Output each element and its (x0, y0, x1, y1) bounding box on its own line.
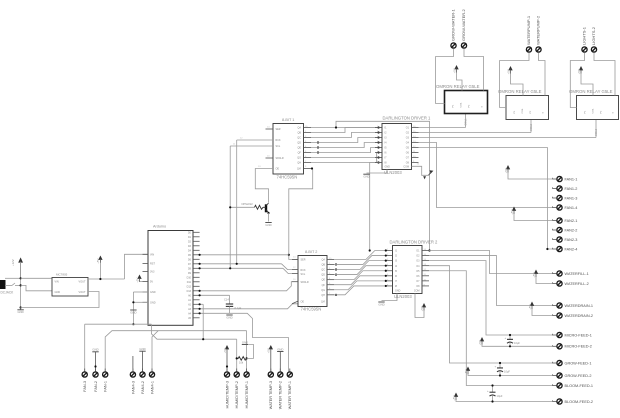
svg-text:QA: QA (298, 127, 302, 130)
svg-text:8-BIT 2: 8-BIT 2 (305, 250, 317, 254)
svg-text:GND: GND (385, 165, 391, 168)
U3 left pin stubs (292, 257, 298, 304)
wire LIGHTS-2 to K3 pin (594, 56, 615, 96)
+5V symbol FAN1 (504, 165, 553, 179)
ground (92, 348, 98, 372)
ground (139, 347, 145, 372)
svg-text:OE: OE (301, 300, 305, 303)
wire +5V to K1 COM (457, 73, 463, 91)
svg-text:LIGHTS-2: LIGHTS-2 (591, 26, 596, 45)
svg-text:GND: GND (150, 291, 156, 294)
wire O2 to WATERDRAIN-1 (429, 256, 553, 306)
junction dot (202, 338, 204, 340)
IC U3 74HC595N shift register 2 (298, 250, 327, 312)
ground (363, 174, 369, 178)
svg-text:+5V: +5V (577, 69, 581, 74)
wire H2 sensor bus (151, 324, 236, 339)
svg-text:C14: C14 (224, 298, 229, 302)
wire ground rail to bottom (85, 323, 152, 325)
junction dot (377, 141, 379, 143)
junction dot (335, 263, 337, 265)
svg-text:BLOOM-FEED-1: BLOOM-FEED-1 (565, 384, 593, 388)
svg-text:VOUT: VOUT (79, 291, 86, 294)
svg-text:COM: COM (403, 165, 409, 168)
resistor R1 10k (237, 357, 247, 365)
wire H2 to HUMID-2 (236, 339, 238, 371)
connector FAN2-2 (553, 227, 578, 232)
svg-text:WATERPUMP-1: WATERPUMP-1 (526, 15, 531, 45)
wire LIGHTS-1 to K3 pin (570, 56, 584, 108)
+5V symbol WATERDRAIN (528, 302, 553, 316)
svg-text:BLOOM-FEED-2: BLOOM-FEED-2 (565, 400, 593, 404)
wire rail drop FAN-3 (84, 324, 86, 371)
connector FAN4-1 (149, 369, 154, 394)
svg-text:74HC595N: 74HC595N (301, 307, 322, 312)
svg-text:10µF: 10µF (514, 341, 520, 345)
junction dot (20, 277, 22, 279)
junction dot (369, 249, 371, 251)
svg-text:FAN4-2: FAN4-2 (141, 381, 145, 394)
connector BLOOM-FEED-2 (553, 399, 593, 404)
svg-text:+5V: +5V (96, 259, 100, 264)
svg-text:VOUT: VOUT (79, 281, 86, 284)
svg-text:OMRON RELAY G5LE: OMRON RELAY G5LE (498, 89, 542, 94)
svg-text:GND: GND (130, 310, 136, 314)
junction dot (335, 126, 337, 128)
connector LIGHTS-1 (582, 26, 587, 56)
+5V symbol WATERFILL (532, 270, 553, 284)
IC U1 74HC595N shift register 1 (273, 118, 304, 180)
svg-text:VIN: VIN (55, 281, 59, 284)
svg-text:QG: QG (297, 157, 301, 160)
svg-text:COIL2: COIL2 (530, 123, 533, 131)
svg-text:WATER TEMP-2: WATER TEMP-2 (279, 381, 283, 409)
svg-text:RCK: RCK (276, 139, 281, 142)
wire MCU A? to H2 (200, 304, 204, 339)
+5V symbol (96, 256, 102, 264)
MCU right pins (187, 231, 200, 320)
+5V arrow at U2 COM (423, 170, 433, 179)
svg-text:FAN1-3: FAN1-3 (565, 196, 578, 200)
svg-text:RST: RST (150, 263, 155, 266)
svg-text:GROW-FEED-2: GROW-FEED-2 (565, 374, 592, 378)
svg-text:WATER TEMP-1: WATER TEMP-1 (288, 381, 292, 409)
svg-text:GND: GND (378, 302, 384, 306)
ground (277, 347, 283, 371)
relay K3 OMRON G5LE (569, 89, 619, 120)
connector HUMID/TEMP-2 (234, 369, 239, 409)
connector WATER TEMP-1 (287, 369, 292, 410)
svg-text:SRCLR: SRCLR (276, 157, 284, 160)
connector WATERPUMP-2 (536, 15, 541, 56)
junction dot (20, 284, 22, 286)
junction dot (267, 212, 269, 214)
ground (130, 310, 136, 314)
connector WATERFILL-1 (553, 271, 589, 276)
svg-text:SRCLR: SRCLR (301, 281, 309, 284)
+5V symbol at MCU 5V pin (135, 275, 142, 283)
wire U4 GND to ground (382, 294, 398, 301)
connector FAN1-2 (553, 186, 578, 191)
capacitor C3 10uF (487, 384, 503, 402)
junction dot (199, 308, 201, 310)
svg-text:+5V: +5V (464, 370, 468, 375)
wire O2 to relay K2 coil (419, 120, 534, 133)
connector GROW-WATER-2 (461, 9, 466, 52)
junction dot (199, 290, 201, 292)
svg-text:SER: SER (301, 259, 306, 262)
svg-text:GND: GND (17, 310, 23, 314)
svg-text:QH: QH (297, 162, 301, 165)
svg-text:MC7805: MC7805 (56, 273, 68, 277)
svg-text:WATERDRAIN-1: WATERDRAIN-1 (565, 304, 593, 308)
junction dot (226, 365, 228, 367)
svg-text:FAN-1: FAN-1 (104, 381, 108, 392)
junction dot (311, 167, 313, 169)
svg-text:QH': QH' (297, 168, 302, 171)
wire O1 to WATERFILL-1 (429, 251, 553, 274)
svg-text:SER: SER (276, 128, 281, 131)
capacitor C1 10uF (505, 334, 521, 348)
svg-text:OMRON RELAY G5LE: OMRON RELAY G5LE (436, 84, 480, 89)
svg-text:QE: QE (322, 279, 326, 282)
svg-text:+5V: +5V (267, 348, 271, 353)
+5V symbol K2 (506, 66, 512, 74)
svg-text:GND: GND (363, 175, 369, 179)
svg-text:HUMID/TEMP-1: HUMID/TEMP-1 (245, 381, 249, 408)
+12V power symbol (11, 257, 23, 278)
junction dot (229, 267, 231, 269)
svg-text:WATER TEMP-3: WATER TEMP-3 (269, 381, 273, 409)
wire O3 to relay K3 coil (419, 120, 599, 138)
wire +5V to MCU VIN (125, 254, 149, 279)
svg-text:FAN1-1: FAN1-1 (565, 177, 578, 181)
U2 pin stubs (375, 126, 419, 163)
junction dot (385, 270, 387, 272)
wire MCU D? to U1 SCL and U2-2 SCL (200, 146, 292, 274)
connector MICRO-FEED-2 (553, 344, 592, 349)
junction dot (236, 357, 238, 359)
junction dot (246, 357, 248, 359)
+5V symbol FAN2 (510, 207, 553, 221)
svg-text:+5V: +5V (420, 306, 424, 311)
svg-text:GND: GND (55, 291, 61, 294)
wire base (230, 206, 254, 208)
svg-text:+5V: +5V (135, 278, 139, 283)
wire WATERPUMP-1 to K2 pin (500, 56, 529, 108)
svg-text:+5V: +5V (506, 69, 510, 74)
U1 left pin wires (230, 126, 273, 168)
svg-text:D12: D12 (187, 285, 192, 288)
junction dot (317, 146, 319, 148)
wire jack to regulator VIN (21, 277, 52, 279)
svg-text:+12V: +12V (11, 259, 15, 266)
wire GROW-WATER-2 to K1 pin (464, 52, 484, 91)
wire MCU D? to U3 SRCLR (200, 282, 292, 291)
wire MCU D? to U3 OE (200, 304, 298, 309)
junction dot (546, 248, 548, 250)
junction dot (229, 206, 231, 208)
connector MICRO-FEED-1 (553, 332, 592, 337)
svg-text:GROW-WATER-1: GROW-WATER-1 (451, 9, 456, 41)
junction dot (377, 136, 379, 138)
junction dot (385, 275, 387, 277)
+5V symbol GROW-FEED (464, 367, 553, 376)
connector FAN4-3 (130, 356, 135, 394)
connector WATER TEMP-2 (278, 369, 283, 410)
junction dot (94, 365, 96, 367)
wire regulator VOUT to +5V node (88, 278, 125, 280)
U4 pin stubs (386, 249, 430, 286)
wire H1 sensor bus (105, 331, 246, 372)
svg-text:FAN4-3: FAN4-3 (131, 381, 135, 394)
junction dot (199, 263, 201, 265)
connector WATERPUMP-1 (526, 15, 531, 56)
svg-text:QB: QB (298, 132, 302, 135)
wire +5V stem (99, 263, 101, 280)
svg-text:HUMID/TEMP-2: HUMID/TEMP-2 (235, 381, 239, 408)
svg-text:OMRON RELAY G5LE: OMRON RELAY G5LE (569, 89, 613, 94)
svg-text:RCK: RCK (301, 269, 306, 272)
wire U1 OE to Q1 collector (255, 169, 273, 203)
svg-text:QC: QC (297, 137, 301, 140)
connector BLOOM-FEED-1 (553, 383, 593, 388)
junction dot (377, 156, 379, 158)
svg-text:COIL3: COIL3 (595, 128, 598, 136)
wire U2 COM (412, 164, 429, 176)
junction dot (317, 151, 319, 153)
ground (242, 340, 248, 344)
svg-text:FAN2-4: FAN2-4 (565, 247, 578, 251)
svg-text:GND: GND (226, 315, 232, 319)
connector WATERDRAIN-2 (553, 313, 593, 318)
svg-text:FAN4-1: FAN4-1 (150, 381, 154, 394)
svg-text:10k: 10k (239, 361, 244, 365)
wire emitter to ground (268, 213, 270, 222)
svg-text:WATERPUMP-2: WATERPUMP-2 (536, 15, 541, 45)
wire +5V to K2 COM (511, 74, 524, 96)
wire jack pin2 to regulator GND (21, 285, 52, 290)
junction dot (199, 303, 201, 305)
wire O5 to BLOOM-FEED-1 (429, 271, 553, 386)
svg-text:+5V: +5V (478, 340, 482, 345)
wire U4 COM to +5V (415, 294, 424, 318)
svg-text:8-BIT 1: 8-BIT 1 (282, 118, 294, 122)
svg-text:QH: QH (321, 294, 325, 297)
wire MCU A? to WATER TEMP-1 (200, 313, 289, 371)
svg-text:+5V: +5V (532, 273, 536, 278)
svg-text:QD: QD (321, 274, 325, 277)
junction dot (99, 278, 101, 280)
svg-text:QB: QB (322, 264, 326, 267)
wire QA branch rail down to U4 O1 (336, 121, 430, 250)
svg-text:5V: 5V (150, 281, 153, 284)
junction dot (385, 265, 387, 267)
relay K1 OMRON G5LE (436, 84, 488, 114)
wire regulator VOUT2 to ground rail (21, 292, 99, 308)
junction dot (199, 254, 201, 256)
junction dot (236, 263, 238, 265)
svg-text:QG: QG (321, 289, 325, 292)
svg-text:Arduino: Arduino (153, 225, 166, 229)
junction dot (377, 151, 379, 153)
wire MCU GND pins to ground (133, 292, 148, 324)
darlington driver U2 ULN2003 (382, 115, 431, 175)
svg-text:D11: D11 (187, 281, 192, 284)
svg-text:WATERDRAIN-2: WATERDRAIN-2 (565, 314, 593, 318)
junction dot (385, 254, 387, 256)
svg-text:SCL: SCL (276, 145, 281, 148)
svg-text:GND: GND (265, 223, 271, 227)
wire U2 GND to ground (367, 170, 388, 174)
svg-text:LIGHTS-1: LIGHTS-1 (582, 26, 587, 45)
relay K2 OMRON G5LE (498, 89, 549, 120)
connector FAN2-3 (553, 237, 578, 242)
wire O3 to MICRO-FEED-1 (429, 261, 553, 335)
connector FAN-2 (93, 369, 98, 392)
transistor Q1 NPN2222 (242, 202, 269, 212)
U1 right pin stubs (304, 126, 312, 169)
svg-text:DARLINGTON DRIVER 2: DARLINGTON DRIVER 2 (390, 239, 439, 244)
connector FAN-1 (103, 369, 108, 392)
svg-text:OE: OE (276, 168, 280, 171)
svg-text:QF: QF (322, 284, 326, 287)
svg-text:VIN: VIN (150, 253, 154, 256)
wire +12V rail (15, 262, 21, 308)
svg-text:FAN2-1: FAN2-1 (565, 219, 578, 223)
svg-text:FAN-3: FAN-3 (83, 381, 87, 392)
microcontroller U5 Arduino (148, 225, 193, 326)
junction dot (377, 131, 379, 133)
svg-text:GND: GND (395, 289, 401, 292)
junction dot (317, 141, 319, 143)
svg-text:COIL: COIL (461, 102, 463, 108)
DC jack J1 (0, 278, 21, 294)
svg-text:GND: GND (150, 301, 156, 304)
svg-text:FAN2-2: FAN2-2 (565, 228, 578, 232)
wire WATERPUMP-2 to K2 pin (539, 56, 546, 96)
svg-text:D10: D10 (187, 276, 192, 279)
svg-text:QA: QA (322, 259, 326, 262)
wire O4 to GROW-FEED-1 (429, 266, 553, 363)
connector GROW-FEED-2 (553, 373, 592, 378)
wire O5 to FAN2-4 (419, 148, 553, 250)
svg-text:74HC595N: 74HC595N (277, 175, 298, 180)
connector FAN-3 (82, 369, 87, 392)
connector FAN2-4 (553, 246, 578, 251)
capacitor C2 10uF (495, 362, 511, 377)
+5V symbol K1 (452, 65, 458, 73)
svg-text:GROW-FEED-1: GROW-FEED-1 (565, 361, 592, 365)
svg-text:10µF: 10µF (497, 394, 503, 398)
wires U3 outputs to U4 inputs (334, 251, 386, 295)
svg-text:3V3: 3V3 (150, 271, 155, 274)
svg-text:MICRO-FEED-2: MICRO-FEED-2 (565, 345, 592, 349)
svg-text:GND: GND (242, 340, 248, 344)
svg-text:+5V: +5V (510, 210, 514, 215)
connector FAN1-1 (553, 176, 578, 181)
junction dot (288, 254, 290, 256)
svg-text:DCJACK: DCJACK (1, 291, 15, 295)
junction dot (335, 268, 337, 270)
svg-text:QC: QC (321, 269, 325, 272)
svg-text:10µF: 10µF (504, 370, 510, 374)
svg-text:+5V: +5V (504, 168, 508, 173)
junction dot (335, 273, 337, 275)
resistor R2 base (255, 205, 264, 209)
+5V symbol HUMID (223, 345, 229, 372)
svg-text:QF: QF (298, 152, 302, 155)
connector GROW-WATER-1 (451, 9, 456, 52)
ground (226, 315, 232, 319)
U3 right pin stubs (327, 258, 334, 295)
svg-text:D13: D13 (187, 290, 192, 293)
svg-text:COIL: COIL (593, 108, 595, 114)
junction dot (385, 249, 387, 251)
wire U1 QH prime to U3 SER (289, 170, 313, 260)
connector WATERFILL-2 (553, 281, 589, 286)
svg-text:+5V: +5V (528, 305, 532, 310)
wire H1 to HUMID-1 (246, 331, 248, 372)
svg-text:FAN2-3: FAN2-3 (565, 238, 578, 242)
connector WATERDRAIN-1 (553, 303, 593, 308)
connector FAN2-1 (553, 218, 578, 223)
svg-text:SCL: SCL (301, 273, 306, 276)
junction dot (20, 306, 22, 308)
junction dot (377, 146, 379, 148)
svg-text:FAN1-2: FAN1-2 (565, 187, 578, 191)
junction dot (428, 249, 430, 251)
junction dot (132, 301, 134, 303)
connector HUMID/TEMP-3 (224, 369, 229, 409)
wire GROW-WATER-1 to K1 pin (436, 52, 454, 104)
junction dot (335, 294, 337, 296)
svg-text:QD: QD (297, 142, 301, 145)
MCU left pins (143, 253, 156, 304)
svg-text:+5V: +5V (223, 348, 227, 353)
svg-text:DARLINGTON DRIVER 1: DARLINGTON DRIVER 1 (383, 115, 432, 120)
junction dot (199, 294, 201, 296)
+5V symbol WATER TEMP (267, 345, 273, 372)
svg-text:MICRO-FEED-1: MICRO-FEED-1 (565, 333, 592, 337)
svg-text:+5V: +5V (452, 68, 456, 73)
wire +5V to K3 COM (581, 74, 593, 96)
svg-text:QH': QH' (321, 300, 326, 303)
svg-text:+: + (505, 336, 507, 340)
svg-text:COIL: COIL (522, 108, 524, 114)
svg-text:NPN2222: NPN2222 (242, 202, 254, 206)
svg-text:GND: GND (277, 347, 283, 351)
darlington driver U4 ULN2003 (390, 239, 439, 299)
svg-text:QE: QE (298, 147, 302, 150)
svg-text:+: + (495, 365, 497, 369)
svg-text:0.1µF: 0.1µF (235, 306, 242, 310)
connector HUMID/TEMP-1 (244, 369, 249, 409)
wire FAN4-1 join H1 (152, 331, 158, 372)
svg-text:FAN-2: FAN-2 (94, 381, 98, 392)
junction dot (377, 161, 379, 163)
connector FAN1-3 (553, 195, 578, 200)
connector FAN4-2 (140, 369, 145, 394)
wire MCU D? to U1 RCK and U2-2 RCK (200, 140, 292, 270)
+5V symbol MICRO-FEED (478, 337, 553, 346)
+5V symbol K3 (577, 66, 583, 74)
wire U2 I8 from below (370, 163, 382, 251)
svg-text:HUMID/TEMP-3: HUMID/TEMP-3 (225, 381, 229, 408)
svg-text:GROW-WATER-2: GROW-WATER-2 (461, 9, 466, 41)
svg-text:COIL1: COIL1 (465, 118, 468, 126)
junction dot (199, 312, 201, 314)
